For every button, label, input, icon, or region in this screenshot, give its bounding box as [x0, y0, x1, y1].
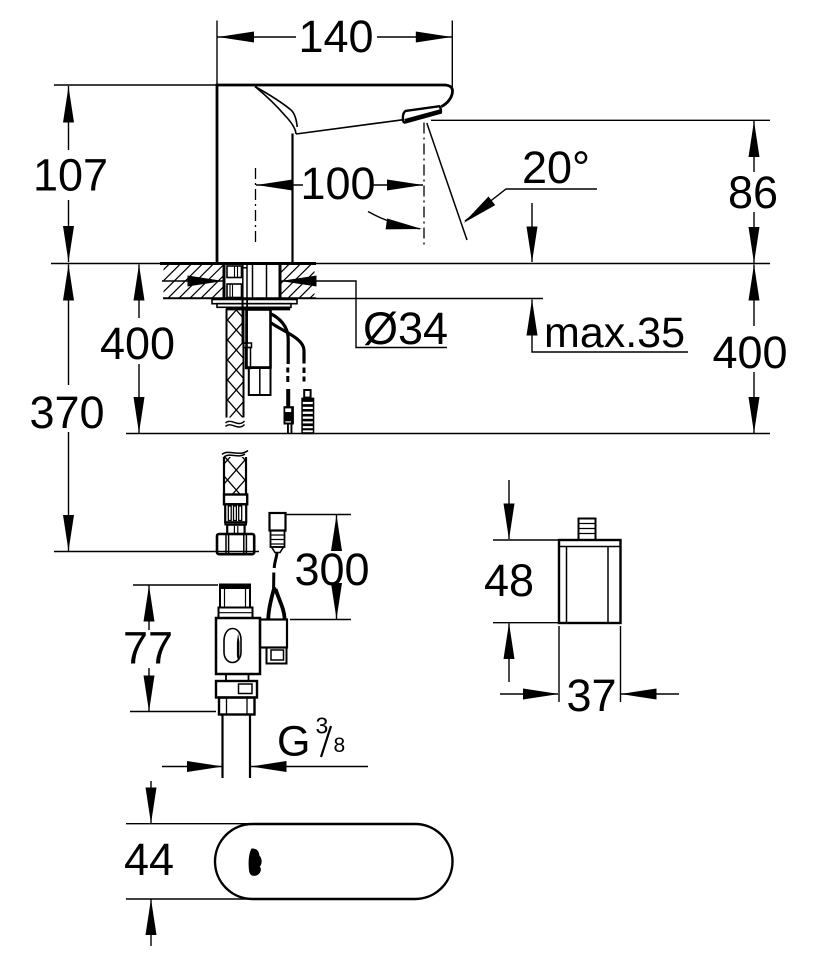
sensor cable conduit [242, 309, 247, 343]
faucet front wedge upper line [255, 87, 297, 128]
svg-text:37: 37 [566, 670, 616, 721]
dimension 48 bottom reference line [493, 622, 558, 624]
svg-text:max.35: max.35 [544, 309, 685, 357]
dimension 44 lower arrow [150, 900, 152, 947]
20 deg leader arrow [460, 197, 495, 228]
svg-text:107: 107 [33, 150, 108, 201]
control box nipple [579, 519, 596, 541]
solenoid housing [260, 620, 287, 648]
dimension 37 extension lines [559, 626, 621, 702]
dimension 100 arrow right [387, 180, 423, 191]
dimension 48 upper arrow [508, 480, 510, 539]
svg-text:G: G [277, 718, 310, 766]
supply hose braided section upper [227, 309, 244, 419]
sensor cable fork boot [268, 587, 274, 619]
deck bottom line [163, 297, 316, 299]
valve hex nut 2 [219, 698, 255, 715]
sensor plug head [270, 513, 286, 531]
dimension 140 arrow left [218, 32, 254, 43]
sensor cable C2 connector tip [304, 390, 310, 398]
dimension 77 top reference line [133, 584, 218, 586]
escutcheon cup bottom [227, 307, 289, 309]
power cable C1 curve [270, 314, 288, 365]
svg-text:20°: 20° [522, 142, 590, 193]
power cable C1 dashes [286, 368, 289, 383]
20 deg leader line [465, 189, 597, 221]
power cable C1 plug pin [287, 425, 289, 434]
sensor conduit lower tube [246, 348, 251, 369]
svg-text:8: 8 [334, 734, 346, 757]
dimension 400 right line [753, 265, 755, 434]
solenoid lower inner square [271, 650, 284, 660]
svg-text:140: 140 [298, 11, 373, 62]
max.35 upper arrow [527, 227, 538, 263]
valve body [216, 618, 260, 674]
valve flange nut [219, 608, 253, 619]
svg-text:Ø34: Ø34 [363, 303, 448, 354]
dimension 300 top reference line [286, 514, 352, 516]
svg-text:77: 77 [123, 623, 173, 674]
dimension 100 arrow left [257, 180, 293, 191]
sensor tube through deck [243, 265, 247, 309]
max.35 leader stem and underline [532, 300, 688, 353]
shank tube below deck [247, 310, 271, 368]
mounting centerline (dash-dot) [255, 168, 257, 246]
control box top inner line [559, 546, 621, 548]
dimension 44 bottom reference line [126, 898, 252, 900]
dimension 37 left arrow [500, 693, 558, 695]
junction box [249, 368, 271, 395]
lower reference line 400 below deck [126, 433, 770, 435]
deck hole right edge [279, 264, 282, 298]
hose break squiggle lower [222, 451, 248, 458]
dimension 300 line [336, 515, 338, 619]
svg-text:400: 400 [712, 327, 787, 378]
dimension G3/8 line [162, 766, 222, 768]
svg-text:48: 48 [484, 555, 534, 606]
junction box divider [259, 368, 261, 395]
sensor cable to valve [274, 553, 277, 569]
escutcheon flange plate 2 [217, 304, 291, 308]
countertop deck line thick part [160, 262, 316, 265]
valve nut 1 inner square [239, 684, 253, 694]
dimension diam 34 left arrow line [162, 280, 223, 282]
solenoid lower part [267, 648, 287, 664]
deck hole left edge [223, 264, 226, 298]
hose neck [227, 525, 244, 534]
svg-text:300: 300 [294, 544, 369, 595]
faucet front wedge lower line and spout underside curve [255, 87, 403, 135]
aerator (spout outlet) [403, 106, 441, 122]
spout centerline (dash-dot) [423, 123, 425, 247]
dimension 48 lower arrow [508, 624, 510, 683]
dimension max.35 lower arrow [527, 300, 538, 336]
faucet body outline [217, 85, 453, 263]
dimension 300 bottom reference line [290, 619, 351, 621]
dimension 77 line [148, 586, 150, 712]
dimension 86 line [753, 121, 755, 263]
dimension 77 bottom reference line [130, 711, 216, 713]
dimension 107 arrow down [63, 226, 74, 262]
hose break squiggle upper [224, 418, 246, 429]
valve body inner pointer [237, 634, 240, 661]
hose slotted section [225, 504, 246, 522]
deck bottom extension line to max.35 [316, 298, 543, 300]
water stream 20 deg line [427, 123, 467, 240]
control box inner verticals [567, 547, 609, 624]
sensor window mark [249, 848, 262, 875]
faucet top view outline (stadium) [215, 824, 453, 899]
max.35 upper arrow stem [531, 203, 533, 262]
svg-text:370: 370 [29, 387, 104, 438]
shank body lines in hole [253, 265, 267, 299]
escutcheon flange plate 1 [212, 300, 297, 304]
dimension 107 extension line top [54, 84, 217, 86]
spout outlet reference line [431, 119, 770, 121]
svg-text:86: 86 [728, 167, 778, 218]
valve body inner capsule [224, 629, 241, 663]
dimension 100 line [256, 184, 423, 186]
valve lower neck [226, 674, 249, 681]
deck hatch right band [255, 264, 344, 298]
sensor cable C2 curve [271, 323, 305, 364]
svg-text:400: 400 [100, 318, 175, 369]
dimension 44 top reference line [126, 823, 252, 825]
dimension 44 upper arrow [150, 781, 152, 823]
sensor plug taper [272, 547, 284, 553]
supply hose braided section lower [224, 457, 246, 495]
control box outer [559, 540, 621, 623]
dimension 400 left line [138, 265, 140, 434]
dimension 140 extension line left [216, 21, 218, 86]
370 bottom reference line [54, 551, 259, 553]
countertop deck line [51, 263, 770, 265]
power cable C1 plug body [284, 406, 294, 424]
power cable C1 lead-in [286, 389, 290, 407]
valve thread fitting [220, 585, 250, 608]
sensor conduit step box [243, 343, 251, 348]
hose slotted section bottom band [225, 522, 246, 524]
20 deg angle arc with arrow [368, 212, 420, 229]
shank parts in hole: left cartridge lower [227, 284, 242, 298]
dimension 48 top reference line [493, 539, 558, 541]
svg-text:100: 100 [300, 158, 375, 209]
deck hatch left band [135, 264, 257, 298]
dimension 140 line [218, 36, 453, 38]
dimension 37 right arrow [621, 693, 679, 695]
aerator bottom thick band [405, 111, 440, 121]
sensor conduit crossing flange [242, 299, 247, 310]
dimension 370 line [68, 265, 70, 552]
sensor cable C2 dashes [303, 368, 306, 382]
hose nut [217, 534, 254, 554]
dimension 140 extension line right [451, 21, 453, 96]
dimension 107 line [68, 86, 70, 262]
valve hex nut 1 [216, 681, 257, 698]
sensor cable C2 connector body [301, 398, 314, 435]
shank parts in hole: left cartridge upper [227, 266, 242, 278]
dimension 107 arrow up [63, 87, 74, 123]
G3/8 pipe [223, 715, 251, 779]
dimension diam 34 right arrow line [281, 281, 448, 348]
svg-text:44: 44 [124, 834, 174, 885]
dimension 140 arrow right [416, 32, 452, 43]
hose collar [224, 495, 247, 505]
faucet base right edge [291, 134, 293, 264]
svg-text:3: 3 [316, 713, 329, 739]
sensor plug ribbed part [271, 531, 285, 548]
shank parts in hole: inner lines [230, 266, 238, 298]
